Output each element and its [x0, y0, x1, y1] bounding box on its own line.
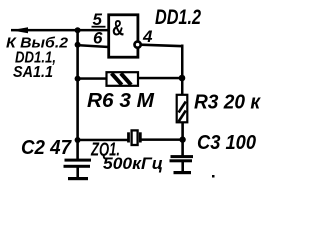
svg-text:R3 20 к: R3 20 к: [194, 92, 261, 114]
node: junction crystal/left rail: [75, 137, 81, 143]
op-amp U1: logic gate DD1.2 box: [109, 15, 141, 57]
svg-text:C2 47: C2 47: [21, 137, 72, 159]
node: junction crystal/right rail: [179, 136, 185, 142]
resistor R6: [107, 72, 139, 86]
wire: R6 right lead: [138, 77, 183, 80]
wire: crystal right lead: [141, 138, 183, 141]
capacitor C2: [64, 159, 92, 168]
node: stray ink speck: [212, 175, 215, 178]
svg-text:C3 100: C3 100: [197, 132, 256, 154]
ground: below C2: [68, 177, 88, 180]
wire: R6 left lead: [77, 77, 107, 80]
svg-text:4: 4: [142, 27, 153, 46]
capacitor C3: [170, 155, 194, 162]
wire: left vertical rail: [76, 29, 79, 160]
svg-text:DD1.2: DD1.2: [155, 6, 201, 29]
wire: right rail R3 to C3: [181, 122, 184, 156]
ground: below C3: [174, 171, 192, 174]
wire: output pin 4 to right rail: [141, 43, 184, 47]
svg-text:&: &: [112, 15, 124, 40]
label: pin 5 (underlined): [92, 10, 106, 29]
wire: crystal left lead: [77, 139, 128, 142]
wire: C3 to ground: [181, 162, 184, 172]
label: inversion circle at output pin 4: [135, 42, 141, 48]
crystal ZQ1: [127, 130, 142, 145]
node: junction R6/left rail: [75, 76, 81, 82]
node: junction input/rail: [75, 27, 81, 33]
svg-text:R6 3 М: R6 3 М: [87, 90, 155, 112]
wire: C2 to ground: [76, 168, 79, 179]
wire: pin 6 stub: [77, 44, 109, 48]
svg-text:500кГц: 500кГц: [103, 154, 163, 173]
resistor R3: [177, 95, 188, 123]
svg-text:6: 6: [93, 29, 103, 48]
svg-text:SA1.1: SA1.1: [13, 64, 53, 81]
node: junction R6/right rail: [179, 75, 186, 82]
wire: right vertical rail upper: [181, 45, 184, 96]
node: junction pin6/rail: [75, 42, 81, 48]
wire: input line to pin 5 with left arrow: [11, 27, 108, 33]
